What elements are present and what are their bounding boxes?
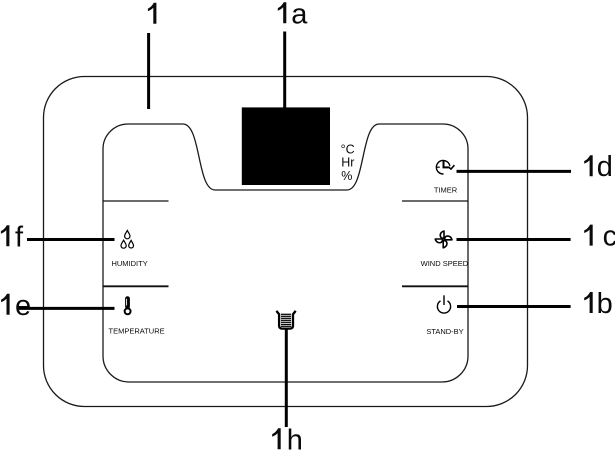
svg-text:STAND-BY: STAND-BY (426, 327, 463, 336)
svg-text:Hr: Hr (341, 156, 354, 170)
panel inner face outline with display recess (103, 124, 468, 382)
wind speed fan icon (435, 231, 452, 248)
label 1h (272, 424, 303, 451)
svg-text:WIND SPEED: WIND SPEED (421, 259, 469, 268)
tank icon 1h (276, 311, 295, 329)
leader line 1e (19, 307, 115, 310)
svg-text:TIMER: TIMER (434, 186, 458, 195)
svg-text:TEMPERATURE: TEMPERATURE (109, 326, 165, 335)
svg-text:°C: °C (341, 142, 355, 156)
humidity icon (121, 231, 134, 249)
left separator lower (103, 285, 169, 287)
right separator lower (402, 285, 468, 287)
display 1a (242, 107, 330, 185)
leader line 1h (285, 330, 288, 428)
svg-text:%: % (341, 169, 352, 183)
right separator upper (402, 200, 468, 202)
leader line 1b (457, 305, 571, 308)
svg-text:b: b (597, 288, 613, 320)
svg-text:h: h (287, 424, 303, 451)
leader line 1c (457, 238, 571, 241)
leader line 1 (147, 33, 150, 109)
label 1c (584, 221, 615, 253)
label 1b (584, 288, 613, 320)
leader line 1a (283, 32, 286, 113)
svg-text:a: a (291, 0, 308, 30)
left separator upper (103, 200, 169, 202)
label 1f (1, 221, 24, 253)
svg-text:f: f (15, 221, 24, 253)
panel outer housing (44, 77, 528, 407)
svg-text:e: e (15, 290, 31, 322)
leader line 1f (27, 238, 115, 241)
svg-text:d: d (597, 151, 613, 183)
label 1a (278, 0, 309, 30)
stand-by power icon (437, 295, 450, 313)
timer icon (436, 160, 454, 174)
svg-text:HUMIDITY: HUMIDITY (111, 259, 147, 268)
label 1e (1, 290, 31, 322)
svg-text:c: c (603, 221, 615, 253)
label 1d (584, 151, 613, 183)
leader line 1d (457, 170, 572, 173)
label 1 (148, 3, 157, 24)
temperature icon (125, 296, 131, 314)
